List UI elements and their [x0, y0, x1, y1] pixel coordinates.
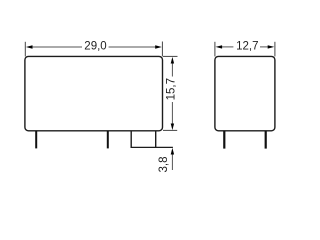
pin 1 front view: [35, 131, 37, 149]
arrow 29,0 right: [155, 45, 162, 48]
extension line pin block bottom / 3,8: [131, 146, 173, 148]
extension line 29,0 right: [161, 42, 163, 57]
pin 2 front view: [107, 131, 109, 149]
svg-text:29,0: 29,0: [84, 40, 106, 52]
dimension line 29,0: [31, 46, 156, 48]
svg-text:15,7: 15,7: [166, 78, 178, 100]
extension line 15,7 top: [163, 55, 178, 57]
extension line 29,0 left: [24, 42, 26, 57]
arrow 12,7 left: [216, 45, 223, 48]
arrow 15,7 down: [171, 124, 174, 131]
svg-text:12,7: 12,7: [236, 40, 258, 52]
arrow 29,0 left: [26, 45, 33, 48]
arrow 12,7 right: [268, 45, 275, 48]
extension line 15,7 bottom: [163, 129, 177, 131]
arrow 15,7 up: [171, 57, 174, 64]
pin 2 side view: [265, 131, 267, 149]
relay body front view: [25, 56, 163, 130]
dimension line 3,8 with up arrow: [171, 150, 173, 170]
pin 1 side view: [223, 131, 225, 149]
arrow 3,8 up: [171, 148, 174, 155]
dimension line 15,7: [171, 62, 173, 125]
relay body side view: [215, 56, 275, 130]
pin block front view: [131, 131, 156, 148]
dimension line 12,7: [221, 46, 270, 48]
extension line 12,7 right: [274, 42, 276, 57]
svg-text:3,8: 3,8: [158, 157, 170, 173]
extension line 12,7 left: [214, 42, 216, 57]
